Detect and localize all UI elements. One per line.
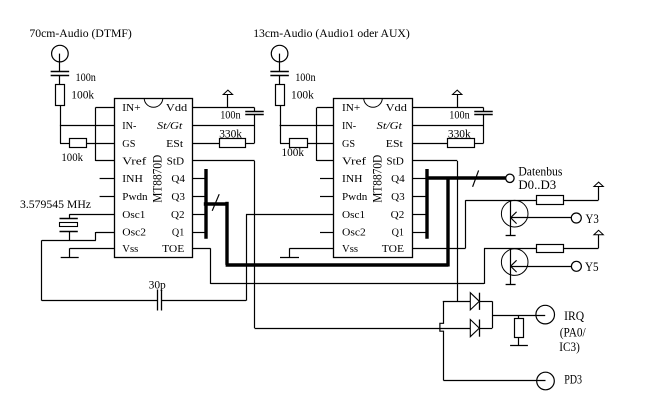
svg-text:Osc2: Osc2 <box>122 227 146 239</box>
svg-text:13cm-Audio (Audio1 oder AUX): 13cm-Audio (Audio1 oder AUX) <box>253 26 410 40</box>
svg-text:30p: 30p <box>149 278 166 292</box>
svg-text:Pwdn: Pwdn <box>122 191 148 203</box>
svg-text:Osc1: Osc1 <box>342 209 365 221</box>
svg-text:100k: 100k <box>71 88 94 102</box>
svg-text:Datenbus: Datenbus <box>518 165 562 179</box>
svg-text:Vss: Vss <box>342 243 358 255</box>
svg-text:TOE: TOE <box>382 243 405 255</box>
svg-text:MT8870D: MT8870D <box>370 155 384 203</box>
svg-text:100n: 100n <box>449 108 469 122</box>
svg-text:IN-: IN- <box>342 120 356 132</box>
svg-text:D0..D3: D0..D3 <box>518 178 556 192</box>
svg-text:100n: 100n <box>295 70 315 84</box>
svg-text:330k: 330k <box>219 127 242 141</box>
svg-text:StD: StD <box>167 156 185 168</box>
svg-text:IN+: IN+ <box>342 102 360 114</box>
svg-text:Q3: Q3 <box>391 191 405 203</box>
svg-text:IN-: IN- <box>122 120 136 132</box>
svg-text:GS: GS <box>122 138 135 150</box>
svg-text:Y3: Y3 <box>586 212 599 226</box>
svg-text:Q1: Q1 <box>392 227 404 239</box>
svg-text:Y5: Y5 <box>585 260 599 274</box>
svg-text:Vss: Vss <box>122 243 138 255</box>
svg-text:Osc2: Osc2 <box>342 227 366 239</box>
svg-text:Vref: Vref <box>122 156 146 168</box>
svg-text:TOE: TOE <box>162 243 185 255</box>
svg-text:100k: 100k <box>282 145 305 159</box>
svg-text:Q1: Q1 <box>172 227 184 239</box>
svg-text:100n: 100n <box>76 70 96 84</box>
svg-text:IN+: IN+ <box>122 102 140 114</box>
svg-text:IC3): IC3) <box>559 340 580 354</box>
svg-text:Vdd: Vdd <box>166 102 188 114</box>
svg-text:St/Gt: St/Gt <box>157 120 183 132</box>
svg-text:100k: 100k <box>291 88 314 102</box>
svg-text:MT8870D: MT8870D <box>151 155 165 203</box>
svg-text:Pwdn: Pwdn <box>342 191 368 203</box>
svg-text:70cm-Audio (DTMF): 70cm-Audio (DTMF) <box>29 26 131 40</box>
svg-text:INH: INH <box>122 173 143 185</box>
svg-text:IRQ: IRQ <box>564 309 584 323</box>
svg-text:Q4: Q4 <box>391 173 405 185</box>
svg-text:Q3: Q3 <box>171 191 185 203</box>
svg-text:Osc1: Osc1 <box>122 209 145 221</box>
svg-text:3.579545 MHz: 3.579545 MHz <box>20 197 91 211</box>
svg-text:Q4: Q4 <box>171 173 185 185</box>
svg-text:Vdd: Vdd <box>386 102 408 114</box>
svg-text:GS: GS <box>342 138 355 150</box>
svg-text:St/Gt: St/Gt <box>377 120 403 132</box>
svg-text:Q2: Q2 <box>171 209 185 221</box>
svg-text:PD3: PD3 <box>564 372 582 386</box>
svg-text:100n: 100n <box>220 108 240 122</box>
svg-text:ESt: ESt <box>386 138 403 150</box>
svg-text:INH: INH <box>342 173 363 185</box>
svg-text:ESt: ESt <box>166 138 183 150</box>
svg-text:(PA0/: (PA0/ <box>560 326 587 340</box>
svg-text:Q2: Q2 <box>391 209 405 221</box>
svg-text:100k: 100k <box>61 150 83 164</box>
svg-text:Vref: Vref <box>342 156 366 168</box>
svg-text:330k: 330k <box>448 127 471 141</box>
svg-text:StD: StD <box>386 156 404 168</box>
